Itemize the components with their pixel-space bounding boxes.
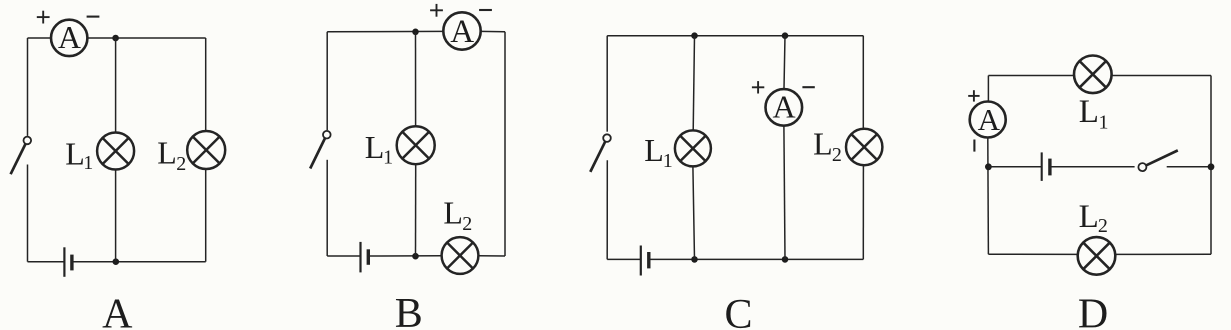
- lamp L1 (circuit B): [397, 126, 435, 164]
- wire A left lower: [27, 165, 29, 262]
- node A top junction: [112, 35, 119, 42]
- wire C right lower: [862, 165, 864, 259]
- wire B middle branch lower: [415, 164, 417, 256]
- switch S (circuit B): [310, 131, 330, 169]
- svg-text:L: L: [443, 195, 463, 231]
- svg-text:L: L: [1079, 94, 1099, 130]
- svg-text:L: L: [644, 132, 664, 168]
- wire C branch1 upper: [693, 36, 694, 131]
- wire A right upper: [205, 38, 207, 131]
- wire B top-right segment: [481, 30, 505, 32]
- svg-text:1: 1: [1099, 111, 1109, 133]
- value label L1 (circuit D): [1079, 94, 1109, 133]
- wire D middle-left segment: [988, 166, 1041, 168]
- node B top junction: [412, 29, 419, 36]
- lamp L1 (circuit A): [97, 133, 134, 170]
- wire C left upper: [606, 36, 608, 132]
- wire C left lower: [606, 160, 608, 259]
- wire B bottom-right segment: [478, 255, 505, 257]
- svg-text:1: 1: [663, 150, 673, 172]
- svg-text:L: L: [65, 135, 85, 171]
- svg-text:A: A: [450, 14, 474, 50]
- svg-text:A: A: [102, 292, 133, 330]
- switch S (circuit D): [1138, 150, 1177, 171]
- label − (ammeter A polarity): [87, 16, 100, 18]
- label − (ammeter D polarity, vertical): [973, 140, 975, 152]
- wire A bottom-right segment: [72, 261, 206, 263]
- ammeter A (circuit A): [51, 19, 87, 56]
- svg-text:L: L: [813, 126, 833, 162]
- value label L1 (circuit C): [644, 132, 673, 172]
- wire B middle branch upper: [415, 32, 417, 126]
- value label L2 (circuit D): [1079, 199, 1108, 237]
- wire A bottom-left segment: [28, 261, 65, 263]
- svg-text:A: A: [978, 102, 1001, 137]
- value label L2 (circuit A): [157, 134, 186, 175]
- label + (ammeter A polarity): [37, 11, 50, 24]
- battery (circuit B): [361, 242, 369, 273]
- wire D left lower: [987, 138, 990, 254]
- value label L1 (circuit A): [65, 135, 93, 174]
- wire B left upper: [326, 32, 328, 130]
- wire D right edge: [1210, 76, 1212, 255]
- wire D middle segment: [1050, 166, 1135, 168]
- value label L2 (circuit B): [443, 195, 472, 235]
- wire B right edge: [504, 32, 506, 256]
- wire B bottom-left segment: [327, 255, 360, 257]
- ammeter A (circuit D): [970, 102, 1006, 138]
- wire C top: [607, 35, 863, 37]
- label + (ammeter D polarity): [968, 90, 979, 101]
- svg-text:A: A: [772, 88, 795, 124]
- svg-text:1: 1: [83, 152, 93, 174]
- label + (ammeter B polarity): [430, 4, 443, 17]
- node C top junction 2: [782, 32, 789, 39]
- wire C branch2 lower: [784, 126, 785, 259]
- svg-text:L: L: [1079, 199, 1099, 235]
- wire A middle branch lower: [115, 170, 117, 262]
- label − (ammeter C polarity): [802, 86, 814, 88]
- wire B bottom-middle segment: [368, 255, 441, 257]
- svg-text:B: B: [395, 291, 423, 330]
- wire D bottom-left segment: [988, 253, 1076, 255]
- wire C bottom-right segment: [649, 258, 864, 260]
- lamp L2 (circuit C): [846, 129, 882, 165]
- node B bottom junction: [412, 253, 419, 260]
- ammeter A (circuit B): [443, 12, 480, 50]
- wire D left upper: [987, 76, 989, 101]
- wire D bottom-right segment: [1116, 253, 1211, 255]
- ammeter A (circuit C): [766, 88, 803, 125]
- wire C bottom-left segment: [607, 258, 641, 260]
- wire A left upper: [27, 38, 29, 136]
- switch S (circuit A): [11, 137, 32, 175]
- svg-text:L: L: [157, 134, 177, 170]
- value label L1 (circuit B): [365, 129, 393, 169]
- node D left junction: [985, 163, 992, 170]
- svg-text:1: 1: [383, 147, 393, 169]
- node D right junction: [1208, 163, 1215, 170]
- svg-text:2: 2: [832, 144, 842, 166]
- wire A middle branch upper: [115, 38, 117, 132]
- label − (ammeter B polarity): [479, 9, 492, 11]
- svg-text:C: C: [724, 292, 752, 330]
- battery (circuit D): [1042, 152, 1050, 181]
- wire A top-right segment: [88, 37, 206, 39]
- wire A top-left segment: [28, 37, 51, 39]
- svg-text:L: L: [365, 129, 385, 165]
- battery (circuit A): [64, 247, 72, 276]
- wire A right lower: [205, 169, 207, 262]
- wire B top-left segment: [327, 30, 443, 32]
- lamp L1 (circuit D): [1074, 56, 1112, 94]
- node C bottom junction 1: [691, 256, 698, 263]
- lamp L2 (circuit B): [442, 237, 479, 274]
- svg-text:2: 2: [1098, 215, 1108, 237]
- wire D top-left segment: [988, 75, 1073, 77]
- wire C branch1 lower: [693, 166, 695, 259]
- wire C right upper: [862, 36, 864, 129]
- svg-text:A: A: [58, 19, 81, 55]
- node C bottom junction 2: [782, 256, 789, 263]
- wire D middle-right segment: [1167, 166, 1211, 168]
- svg-text:2: 2: [176, 153, 186, 175]
- node C top junction 1: [691, 32, 698, 39]
- switch S (circuit C): [590, 134, 611, 172]
- lamp L2 (circuit D): [1078, 237, 1116, 275]
- value label L2 (circuit C): [813, 126, 842, 167]
- wire B left lower: [326, 160, 328, 256]
- lamp L1 (circuit C): [675, 130, 711, 166]
- wire D top-right segment: [1112, 75, 1211, 77]
- svg-text:D: D: [1078, 292, 1108, 330]
- label + (ammeter C polarity): [752, 81, 764, 93]
- battery (circuit C): [641, 246, 649, 276]
- svg-text:2: 2: [462, 213, 472, 235]
- lamp L2 (circuit A): [187, 131, 225, 169]
- node A bottom junction: [113, 258, 120, 265]
- wire C branch2 upper: [784, 36, 785, 89]
